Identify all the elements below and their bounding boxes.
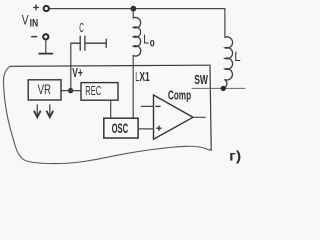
op-amp Comp (comparator) — [154, 95, 194, 139]
svg-text:X1: X1 — [139, 70, 149, 84]
capacitor C — [71, 36, 106, 50]
junction: SW / L dot — [221, 86, 226, 91]
wire: VR to REC rail — [61, 90, 81, 92]
label + (non-inverting input) — [157, 126, 161, 130]
svg-text:г): г) — [229, 147, 241, 163]
inductor L0 — [133, 17, 141, 56]
IC box right edge — [210, 65, 211, 150]
wire: comparator output stub — [193, 116, 205, 118]
svg-text:V+: V+ — [72, 66, 82, 80]
wire: right corner down to inductor L — [224, 9, 226, 38]
arrow: VR output 1 — [34, 105, 40, 117]
svg-text:VR: VR — [38, 82, 52, 97]
label - (negative terminal sign) — [32, 36, 37, 38]
junction: V+ node dot — [68, 88, 73, 93]
wire: L bottom hook to SW rail — [223, 80, 227, 89]
wire: negative terminal to ground — [45, 40, 47, 54]
inductor L — [225, 37, 233, 80]
svg-text:SW: SW — [194, 72, 208, 87]
wire: top rail from + terminal to right corner — [49, 8, 225, 10]
svg-text:0: 0 — [150, 38, 155, 49]
label L0 — [143, 33, 155, 50]
svg-text:L: L — [234, 49, 241, 64]
label VIN — [22, 12, 38, 29]
pin label LX1 — [135, 70, 150, 84]
svg-text:C: C — [79, 20, 84, 35]
svg-text:IN: IN — [30, 17, 39, 29]
wire: node V+ vertical from capacitor to VR/REC rail — [70, 43, 72, 90]
label - (inverting input) — [156, 105, 160, 107]
wire: net LX1 from L0 down into OSC — [132, 56, 134, 119]
wire: SW output rail — [192, 87, 245, 89]
IC box torn wavy left/bottom boundary — [3, 66, 211, 163]
junction: top rail / L0 dot — [131, 6, 137, 12]
block VR — [28, 80, 61, 100]
svg-text:V: V — [22, 12, 29, 27]
wire: REC to OSC — [110, 100, 112, 118]
svg-text:REC: REC — [85, 84, 101, 98]
block OSC — [104, 118, 138, 138]
svg-text:OSC: OSC — [112, 120, 129, 136]
IC box top edge — [10, 65, 210, 66]
svg-text:L: L — [143, 33, 149, 47]
terminal - (input negative terminal circle) — [43, 34, 48, 39]
arrow: VR output 2 — [47, 105, 53, 117]
wire: OSC to comparator non-inverting input — [138, 128, 153, 130]
terminal + (input positive terminal circle) — [44, 6, 49, 11]
wire: comparator inverting input stub — [141, 105, 153, 107]
svg-text:Comp: Comp — [168, 87, 191, 102]
wire: dot to inductor L0 — [132, 9, 134, 18]
label + (positive terminal sign) — [34, 5, 39, 10]
block REC — [81, 83, 118, 101]
ground — [39, 53, 52, 55]
